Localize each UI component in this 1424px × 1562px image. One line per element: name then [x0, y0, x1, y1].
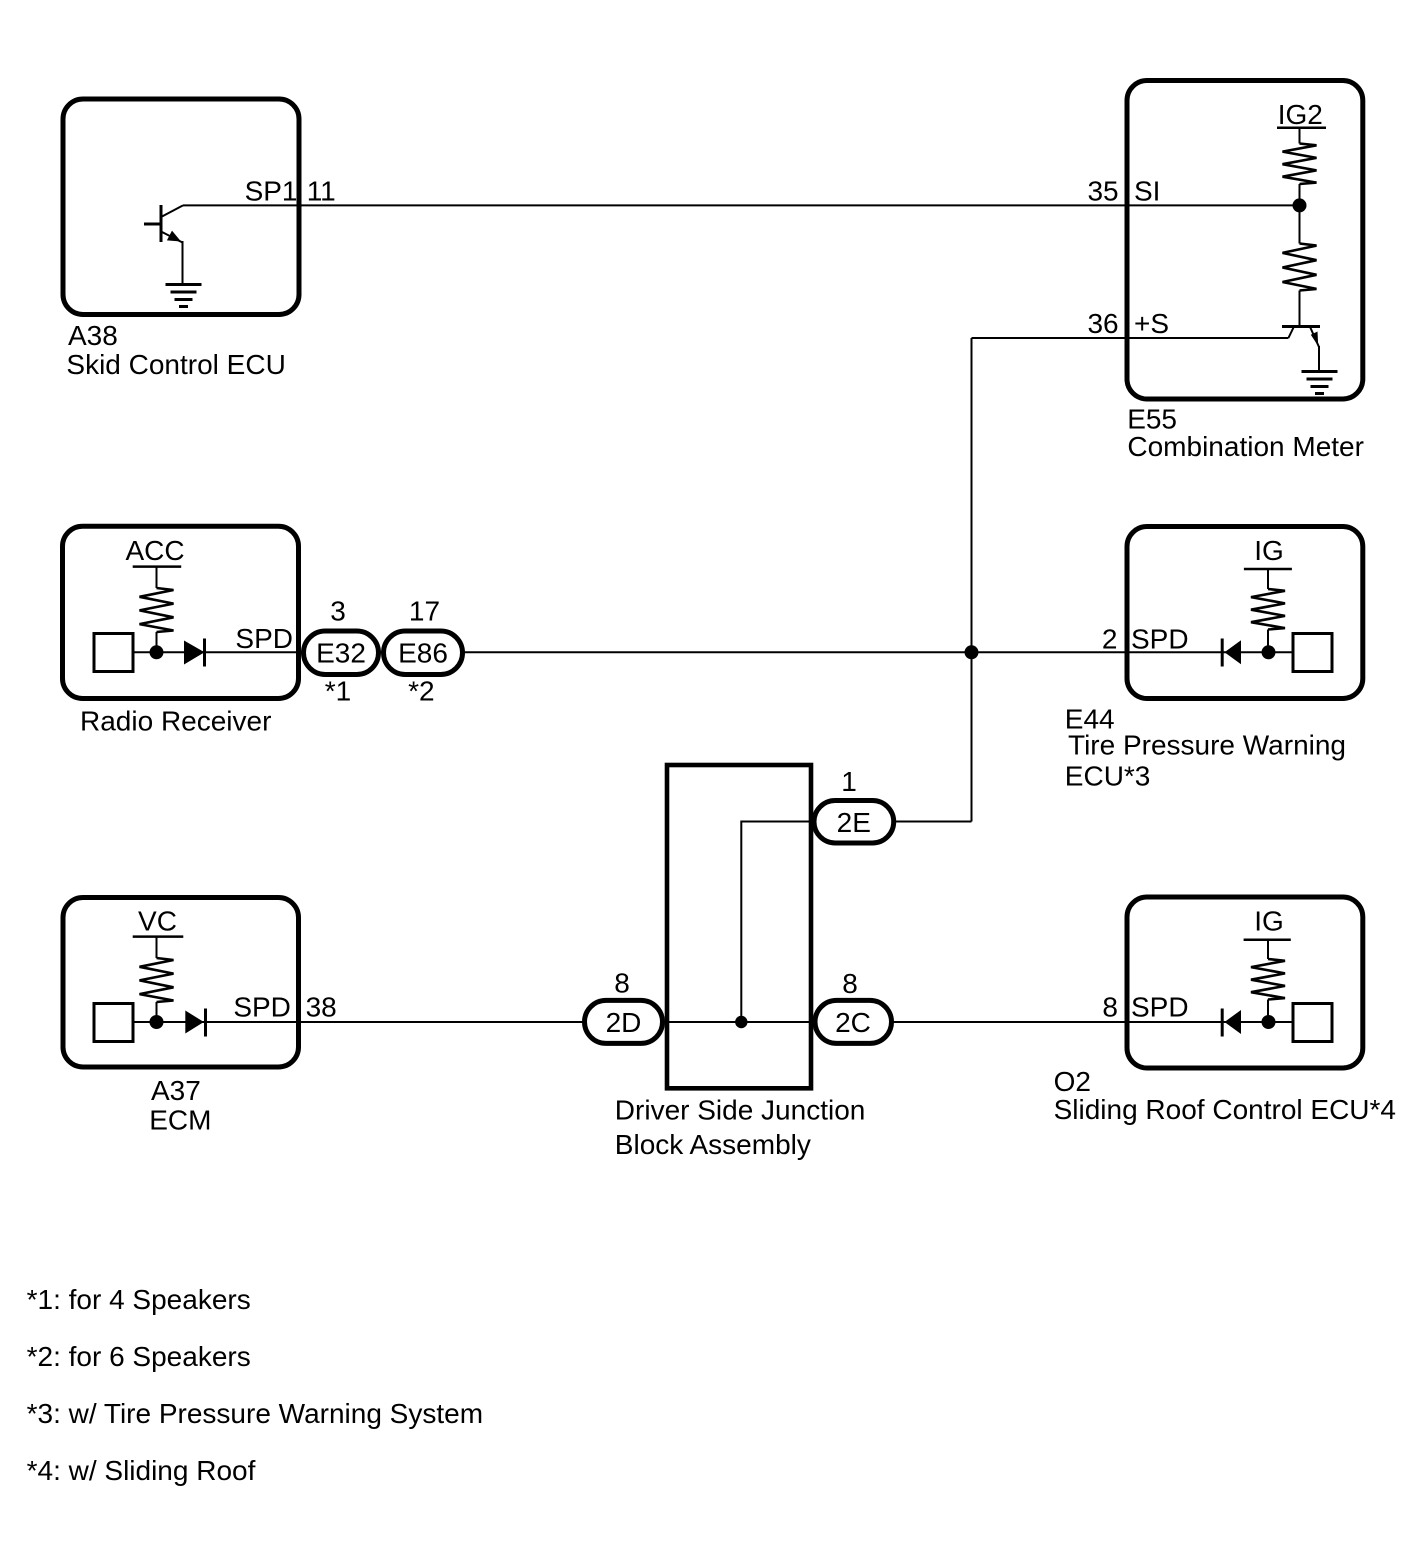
svg-text:O2: O2	[1054, 1066, 1091, 1097]
resistor in E44	[1251, 589, 1285, 630]
connector oval 2D	[585, 1000, 663, 1043]
svg-text:Skid Control ECU: Skid Control ECU	[66, 349, 285, 380]
connector oval E32	[304, 631, 379, 675]
svg-text:2D: 2D	[606, 1007, 642, 1038]
box Radio Receiver	[63, 526, 299, 698]
svg-text:2E: 2E	[837, 807, 871, 838]
connector square in Radio Receiver	[94, 634, 133, 672]
transistor Q in E55	[1299, 291, 1301, 327]
box A38 Skid Control ECU	[63, 99, 299, 315]
svg-text:*1: *1	[325, 676, 351, 707]
svg-text:Radio Receiver: Radio Receiver	[80, 706, 271, 737]
svg-text:35: 35	[1087, 175, 1118, 206]
resistor lower in E55	[1283, 244, 1317, 291]
connector square in E44	[1293, 634, 1332, 672]
svg-text:11: 11	[307, 175, 336, 206]
wire ECM SPD net (A37 pin 38 through 2D/2C to O2 pin 8)	[134, 1021, 1293, 1023]
junction block Driver Side Junction Block Assembly	[667, 765, 811, 1088]
wire vertical riser from +S wire down to 2E wire	[971, 338, 973, 822]
node dot in A37	[150, 1015, 164, 1029]
svg-text:SP1: SP1	[245, 175, 298, 206]
svg-text:Tire Pressure Warning: Tire Pressure Warning	[1068, 730, 1346, 761]
svg-text:8: 8	[1102, 991, 1118, 1022]
box A37 ECM	[63, 898, 299, 1068]
node dot in Radio Receiver	[150, 645, 164, 659]
svg-text:SI: SI	[1134, 175, 1160, 206]
wire SP1/SI net (A38 pin 11 to E55 pin 35)	[183, 204, 1300, 206]
svg-text:Combination Meter: Combination Meter	[1127, 431, 1364, 462]
svg-text:A37: A37	[151, 1075, 201, 1106]
connector square in A37	[94, 1004, 133, 1042]
wire SPD net (radio receiver through E32/E86 to E44 pin 2)	[134, 651, 1293, 653]
svg-text:2: 2	[1102, 623, 1118, 654]
svg-text:SPD: SPD	[1131, 623, 1189, 654]
diode in O2	[1225, 1010, 1242, 1034]
resistor upper in E55	[1283, 144, 1317, 185]
resistor in Radio Receiver	[140, 588, 174, 632]
ground in E55	[1302, 372, 1338, 394]
svg-text:SPD: SPD	[1131, 991, 1189, 1022]
diode in E44	[1225, 640, 1242, 664]
node dot in E44	[1262, 645, 1276, 659]
connector oval 2E	[814, 801, 894, 844]
wire junction block internal (2E down to SPD wire)	[741, 822, 830, 1023]
svg-text:SPD: SPD	[233, 991, 291, 1022]
svg-text:IG: IG	[1254, 905, 1284, 936]
svg-text:ECM: ECM	[149, 1104, 211, 1135]
svg-text:Sliding Roof Control ECU*4: Sliding Roof Control ECU*4	[1054, 1094, 1396, 1125]
svg-text:VC: VC	[138, 906, 177, 937]
wire +S net (riser top to E55 pin 36)	[972, 337, 1289, 339]
svg-text:36: 36	[1087, 308, 1118, 339]
transistor Q in A38	[144, 205, 161, 242]
svg-text:E86: E86	[398, 638, 448, 669]
svg-text:17: 17	[409, 596, 440, 627]
svg-text:8: 8	[614, 967, 630, 998]
node dot in E55	[1293, 198, 1307, 212]
diode in Radio Receiver	[184, 641, 205, 665]
svg-text:E55: E55	[1127, 404, 1177, 435]
svg-text:A38: A38	[68, 320, 118, 351]
connector square in O2	[1293, 1004, 1332, 1042]
svg-text:SPD: SPD	[235, 623, 293, 654]
svg-text:IG: IG	[1254, 535, 1284, 566]
box E44 Tire Pressure Warning ECU	[1127, 527, 1363, 699]
resistor in A37	[140, 958, 174, 1002]
node dot in O2	[1262, 1015, 1276, 1029]
svg-text:*4: w/ Sliding Roof: *4: w/ Sliding Roof	[27, 1455, 256, 1486]
svg-text:38: 38	[306, 991, 337, 1022]
svg-text:*2: *2	[408, 676, 434, 707]
box E55 Combination Meter	[1127, 81, 1363, 400]
node junction dot inside block	[735, 1016, 747, 1028]
node junction dot riser x SPD wire	[965, 645, 979, 659]
wire 2E to riser	[880, 821, 972, 823]
svg-text:*2: for 6 Speakers: *2: for 6 Speakers	[27, 1341, 251, 1372]
ground in A38	[166, 285, 202, 307]
svg-text:+S: +S	[1134, 308, 1169, 339]
connector oval E86	[384, 631, 463, 675]
svg-text:*1: for 4 Speakers: *1: for 4 Speakers	[27, 1284, 251, 1315]
svg-text:Block Assembly: Block Assembly	[615, 1129, 811, 1160]
svg-text:Driver Side Junction: Driver Side Junction	[615, 1094, 866, 1125]
svg-text:8: 8	[842, 968, 858, 999]
svg-text:E32: E32	[316, 638, 366, 669]
svg-text:ECU*3: ECU*3	[1065, 761, 1151, 792]
diode in A37	[185, 1011, 204, 1034]
connector oval 2C	[815, 1000, 892, 1043]
svg-text:2C: 2C	[835, 1007, 871, 1038]
svg-text:IG2: IG2	[1278, 99, 1323, 130]
box O2 Sliding Roof Control ECU	[1127, 897, 1363, 1068]
svg-text:ACC: ACC	[125, 535, 184, 566]
svg-text:3: 3	[330, 596, 346, 627]
svg-text:1: 1	[841, 766, 857, 797]
resistor in O2	[1251, 959, 1285, 1000]
svg-text:*3: w/ Tire Pressure Warning S: *3: w/ Tire Pressure Warning System	[27, 1398, 483, 1429]
